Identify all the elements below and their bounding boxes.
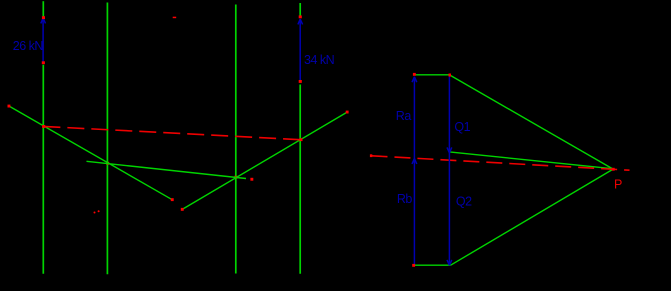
svg-text:Q2: Q2	[456, 194, 472, 208]
svg-text:Q1: Q1	[454, 120, 470, 134]
svg-text:34 kN: 34 kN	[304, 53, 335, 67]
svg-text:Ra: Ra	[396, 109, 412, 123]
svg-text:26 kN: 26 kN	[13, 39, 44, 53]
svg-text:P: P	[614, 178, 622, 192]
svg-text:Rb: Rb	[397, 192, 413, 206]
